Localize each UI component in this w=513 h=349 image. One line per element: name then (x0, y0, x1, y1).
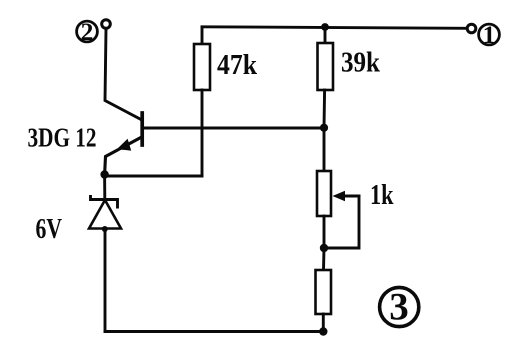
zener diode VD 6V triangle (anode) (89, 200, 121, 229)
zener diode VD cathode bar (91, 197, 118, 208)
transistor Q1 emitter lead with arrow (105, 138, 141, 175)
node 2 label (circled 2) (77, 17, 98, 46)
wire horizontal from emitter node to R1 column (105, 175, 202, 178)
wire left column from bottom rail up to zener (104, 229, 107, 332)
svg-text:39k: 39k (341, 48, 380, 79)
junction node top rail / R2 (321, 23, 329, 31)
value label 47k (217, 50, 257, 81)
terminal circle for node 1 (467, 24, 476, 33)
junction node bottom rail / R3 (319, 327, 327, 335)
wire bottom rail (105, 330, 323, 333)
transistor Q1 collector lead (105, 29, 142, 120)
wire wiper return to RP bottom junction (324, 196, 359, 248)
resistor R3 (unlabeled) (316, 270, 332, 314)
svg-text:3: 3 (389, 286, 409, 329)
value label 39k (341, 48, 380, 79)
svg-text:1k: 1k (370, 180, 394, 211)
wire from junction down to R3 (322, 248, 325, 270)
terminal circle for node 2 (102, 20, 111, 29)
svg-text:47k: 47k (217, 50, 257, 81)
svg-text:1: 1 (483, 20, 496, 49)
wire from junction down to potentiometer RP (323, 128, 326, 171)
node 3 label (circled 3) (380, 286, 419, 329)
wire from R1 bottom down to emitter node row (201, 90, 204, 176)
wire from top rail down to R1 (201, 27, 204, 44)
value label 6V (36, 214, 63, 245)
svg-text:3DG 12: 3DG 12 (28, 123, 97, 153)
reference label 3DG 12 (28, 123, 97, 153)
svg-text:2: 2 (81, 17, 94, 46)
svg-text:6V: 6V (36, 214, 63, 245)
potentiometer RP body (317, 171, 331, 216)
wire from top rail junction to R2 (324, 27, 327, 43)
potentiometer RP wiper arrow (333, 191, 360, 201)
wire from RP bottom to junction (323, 216, 326, 248)
junction blob at zener triangle base (102, 226, 108, 232)
value label 1k (370, 180, 394, 211)
node 1 label (circled 1) (479, 20, 500, 49)
wire from R3 bottom to bottom rail (322, 314, 325, 332)
junction node RP bottom / wiper (320, 244, 328, 252)
transistor Q1 3DG12 base bar (140, 113, 144, 145)
resistor R1 47k (194, 44, 210, 90)
resistor R2 39k (318, 43, 334, 90)
wire top rail (202, 27, 467, 29)
wire base line from transistor to junction (142, 127, 324, 130)
junction node emitter / zener / R1 return (100, 170, 108, 178)
junction node base line / R2 / RP (320, 124, 328, 132)
wire from R2 bottom to base-line junction (323, 90, 327, 128)
wire from zener cathode up to emitter junction (103, 175, 106, 200)
